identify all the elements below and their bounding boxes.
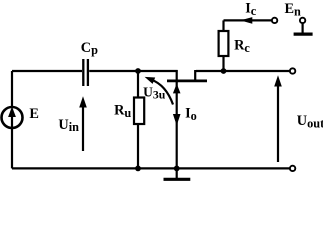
wire Ic horizontal	[224, 19, 272, 21]
wire left vertical below source E	[11, 128, 13, 168]
wire Rc bottom lead	[222, 56, 224, 71]
junction node at Rc bottom	[221, 68, 227, 74]
svg-text:Ic: Ic	[245, 1, 257, 18]
junction node at Ru bottom	[135, 166, 141, 172]
wire bottom horizontal	[12, 167, 290, 169]
wire top horizontal left (E to Cp)	[12, 70, 82, 72]
svg-text:Uout: Uout	[297, 113, 323, 131]
svg-text:Rc: Rc	[234, 38, 250, 55]
wire En lead	[302, 23, 304, 33]
arrow Io (down, on source lead)	[173, 114, 181, 126]
curved arrow U3u	[151, 80, 173, 105]
resistor R_u body	[134, 98, 144, 125]
junction node at ground	[174, 166, 180, 172]
svg-text:U3u: U3u	[143, 84, 166, 101]
transistor gate drop	[176, 70, 178, 82]
terminal circle En	[300, 18, 305, 23]
resistor R_c body	[219, 31, 229, 56]
transistor source lead vertical	[176, 82, 178, 168]
En supply bar	[294, 32, 313, 35]
transistor drain riser	[194, 70, 196, 80]
source E circle	[2, 107, 23, 128]
transistor source arrowhead (up)	[173, 84, 181, 94]
capacitor C_p plates	[83, 59, 88, 86]
arrow Ic (pointing left)	[240, 17, 252, 24]
svg-text:Uin: Uin	[58, 117, 79, 134]
terminal circle Ic	[272, 18, 277, 23]
junction node at gate/Ru top	[135, 68, 141, 74]
transistor VT channel bar	[167, 80, 207, 83]
arrow Uout (up)	[277, 86, 279, 163]
wire left vertical above source E	[11, 71, 13, 107]
arrow Uin (up)	[82, 106, 84, 151]
terminal circle Uout bottom	[290, 166, 295, 171]
svg-text:En: En	[285, 1, 302, 18]
wire top horizontal right (drain to Uout terminal)	[196, 70, 290, 72]
wire Ru top lead	[137, 71, 139, 98]
wire top horizontal (Cp to gate)	[89, 70, 177, 72]
svg-text:E: E	[29, 106, 39, 122]
svg-text:Cp: Cp	[81, 40, 98, 57]
wire Rc top lead	[222, 20, 224, 31]
svg-text:Io: Io	[185, 106, 197, 123]
terminal circle Uout top	[290, 68, 295, 73]
ground symbol	[176, 168, 178, 178]
source E arrow	[11, 114, 13, 128]
svg-text:Ru: Ru	[114, 103, 131, 120]
wire Ru bottom lead	[137, 124, 139, 168]
